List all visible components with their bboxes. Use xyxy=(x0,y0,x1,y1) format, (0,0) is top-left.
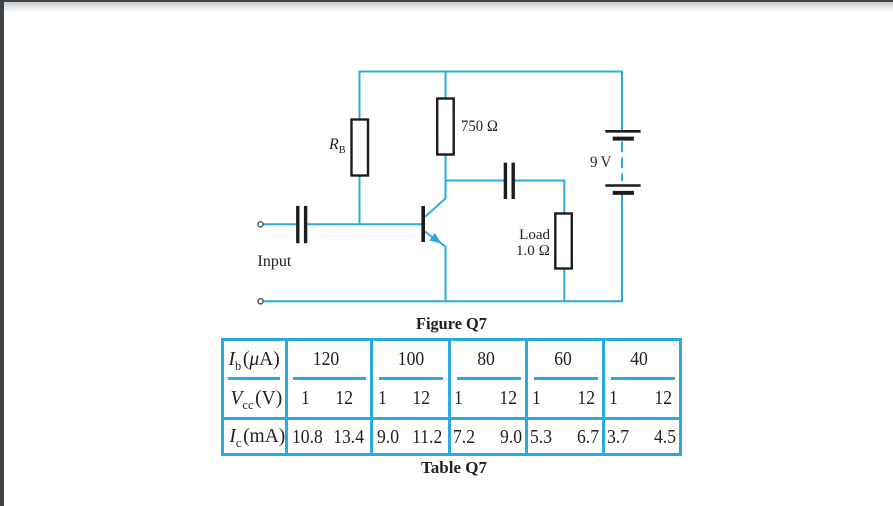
table partial rule col 1 xyxy=(293,377,366,380)
table partial rule header col xyxy=(228,377,280,380)
wire: battery bottom lead xyxy=(621,195,623,303)
battery 9V bottom cell plates xyxy=(605,186,640,193)
resistor Load 1.0 ohm xyxy=(555,214,572,269)
row3 values xyxy=(292,427,323,447)
wire: collector node to output cap xyxy=(446,180,505,182)
wire: emitter diagonal + vertical xyxy=(425,232,446,302)
table header Ic xyxy=(229,427,285,447)
input terminal node (top) xyxy=(258,222,263,227)
row2 values xyxy=(301,388,310,408)
wire: RB branch top xyxy=(359,71,361,121)
caption Table Q7 xyxy=(421,459,487,476)
resistor RB xyxy=(352,120,369,176)
page frame: top dark strip with shadow xyxy=(0,0,893,2)
table column line 5 xyxy=(602,338,605,456)
row1 values xyxy=(313,349,339,369)
wire: load bottom lead xyxy=(563,269,565,302)
wire: RB branch bottom xyxy=(359,175,361,226)
wire: cap C1 to base, RB junction xyxy=(307,223,421,225)
wire: output cap to load branch xyxy=(515,180,565,182)
wire: top rail xyxy=(360,71,623,73)
label 9 V xyxy=(590,155,611,171)
table column line 2 xyxy=(370,338,373,456)
table partial rule col 5 xyxy=(611,377,675,380)
battery 9V top cell plates xyxy=(605,131,640,138)
transistor Q1 base bar xyxy=(421,206,425,242)
capacitor C1 (input) plates xyxy=(298,206,306,243)
caption Figure Q7 xyxy=(416,315,487,332)
wire: battery top lead xyxy=(621,71,623,131)
resistor 750 ohm xyxy=(437,99,454,155)
wire: 750 ohm top lead xyxy=(445,71,447,100)
label Input xyxy=(258,254,292,270)
wire: load branch down xyxy=(563,180,565,215)
label Load 1.0 ohm xyxy=(500,227,550,260)
table column line 3 xyxy=(448,338,451,456)
capacitor C2 (output) plates xyxy=(505,163,513,199)
table Q7 frame xyxy=(221,338,682,456)
table column line 1 xyxy=(285,338,288,456)
wire: input to cap C1 xyxy=(263,223,296,225)
wire: collector lead vertical + diagonal xyxy=(425,155,446,218)
label RB xyxy=(329,137,346,153)
table header Vcc xyxy=(231,389,283,409)
table full row separator xyxy=(221,417,682,420)
page frame: left dark bar xyxy=(0,0,4,506)
table partial rule col 2 xyxy=(379,377,443,380)
label 750 ohm xyxy=(461,119,498,135)
table partial rule col 3 xyxy=(457,377,521,380)
table column line 4 xyxy=(525,338,528,456)
wire: bottom rail xyxy=(263,300,622,302)
table partial rule col 4 xyxy=(534,377,598,380)
table header Ib xyxy=(229,350,280,370)
wire: battery dashed middle xyxy=(621,142,623,182)
input terminal node (bottom) xyxy=(258,299,263,304)
transistor Q1 emitter arrow xyxy=(429,233,441,244)
